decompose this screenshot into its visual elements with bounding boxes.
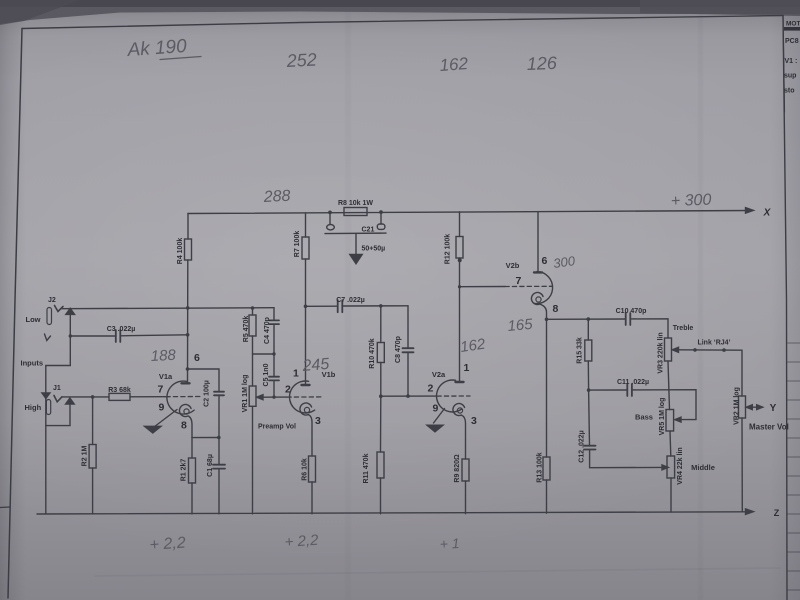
wire cathode node horizontal xyxy=(192,437,219,439)
svg-text:188: 188 xyxy=(150,347,177,365)
wire C4 bottom lead xyxy=(273,324,275,354)
wire C5 top lead xyxy=(273,354,275,376)
jack J1 switch arrow xyxy=(66,398,75,404)
svg-text:7: 7 xyxy=(516,275,522,287)
wire VR5 to VR4 track xyxy=(669,431,672,456)
wire R11 bottom lead xyxy=(380,478,382,514)
wire R10 top lead xyxy=(380,306,382,343)
wire C8 bottom lead xyxy=(407,353,409,397)
svg-text:R1 2k7: R1 2k7 xyxy=(181,459,188,482)
capacitor C21 stem xyxy=(355,233,357,254)
resistor R5 470k xyxy=(249,315,256,336)
wire C10 to VR3 corner xyxy=(630,319,668,338)
V2b anode bar xyxy=(534,271,542,273)
node X arrowhead xyxy=(746,208,754,214)
wire R9 bottom lead xyxy=(465,481,467,514)
node junction wire B / V1b anode xyxy=(304,305,308,309)
wire C2 branch top xyxy=(188,369,220,391)
svg-text:Master Vol: Master Vol xyxy=(749,423,789,432)
resistor R6 10k xyxy=(309,456,316,482)
wire VR3 to VR5 track xyxy=(668,361,670,410)
node junction R10 top xyxy=(379,304,383,308)
svg-text:R7 100k: R7 100k xyxy=(294,231,301,258)
svg-text:C11 .022µ: C11 .022µ xyxy=(617,379,649,386)
svg-text:1: 1 xyxy=(293,368,299,380)
svg-text:162: 162 xyxy=(459,336,487,356)
resistor R8 10k 1W xyxy=(344,208,367,216)
triode V2b envelope xyxy=(534,272,553,304)
svg-text:165: 165 xyxy=(507,316,534,335)
svg-text:2: 2 xyxy=(428,383,434,395)
wire R8 right stem xyxy=(380,212,382,224)
node junction R2 top xyxy=(91,395,95,399)
V1b cathode curl inner xyxy=(304,407,309,412)
svg-text:sup: sup xyxy=(784,73,796,80)
jack J1 switch contact arrow (down) xyxy=(42,393,50,399)
paper crease faint line xyxy=(95,568,780,576)
svg-text:V2b: V2b xyxy=(506,261,520,270)
wire V1b grid dashes xyxy=(287,396,321,398)
node junction C5 bottom xyxy=(272,395,275,398)
node junction V2b grid branch xyxy=(458,285,461,288)
wire V2b grid feed xyxy=(460,286,506,288)
VR4 wiper arrowhead xyxy=(662,465,668,470)
svg-text:R10 470k: R10 470k xyxy=(369,338,376,368)
VR2 wiper right arrowhead xyxy=(757,405,763,410)
wire C12 column xyxy=(588,390,591,445)
wire R4 top lead from bus xyxy=(187,214,189,240)
V2b cathode curl inner xyxy=(536,297,541,302)
wire R13 column xyxy=(546,319,548,457)
wire R13 bottom lead xyxy=(546,480,548,513)
title block left border (top right) xyxy=(783,16,785,113)
wire J2 contact drop xyxy=(46,314,71,392)
wire C1 top lead xyxy=(218,438,220,465)
capacitor C11 .022u plates xyxy=(627,384,632,396)
wire V1b cathode lead xyxy=(309,415,313,456)
wire R7 top lead from bus xyxy=(305,213,307,237)
wire V2b grid dashes xyxy=(505,285,552,287)
svg-text:Z: Z xyxy=(774,508,780,518)
wire VR2 bottom lead xyxy=(741,418,743,512)
svg-text:Inputs: Inputs xyxy=(21,359,44,368)
V2a anode bar xyxy=(456,381,464,383)
wire VR4 bottom lead xyxy=(670,478,672,512)
svg-text:288: 288 xyxy=(262,188,291,206)
resistor R15 33k xyxy=(585,340,592,361)
jack J2 tip hook xyxy=(55,306,64,312)
wire J1 contact drop xyxy=(46,404,70,426)
frame top border xyxy=(22,16,783,29)
wire V2b cathode lead xyxy=(540,304,547,319)
svg-text:V1 :: V1 : xyxy=(785,58,798,65)
svg-text:Low: Low xyxy=(26,315,41,324)
photo top dark band xyxy=(0,0,800,25)
capacitor C3 .022u plates xyxy=(116,330,121,342)
node junction R8 right tap xyxy=(379,210,383,214)
left margin tick xyxy=(0,506,10,509)
svg-text:R5 470k: R5 470k xyxy=(243,316,250,343)
V1b cathode curl xyxy=(300,403,312,415)
wire B C7 to C8 corner xyxy=(342,305,408,307)
pad connector left of C21 xyxy=(327,225,335,230)
wire V2b anode from bus xyxy=(537,212,539,272)
wire cathode node to C10 xyxy=(547,318,626,320)
VR1 wiper arrowhead xyxy=(257,395,263,400)
wire R1 bottom lead xyxy=(191,483,193,514)
wire C12 bottom corner to VR4 wiper xyxy=(590,450,663,468)
svg-text:245: 245 xyxy=(301,356,330,375)
svg-text:R12 100k: R12 100k xyxy=(445,234,452,264)
jack J1 sleeve xyxy=(46,400,50,415)
svg-text:VR4 22k lin: VR4 22k lin xyxy=(677,447,684,484)
svg-text:High: High xyxy=(25,403,42,412)
svg-text:252: 252 xyxy=(285,49,317,71)
svg-text:Preamp Vol: Preamp Vol xyxy=(258,424,296,431)
svg-text:J2: J2 xyxy=(48,297,56,304)
svg-text:162: 162 xyxy=(439,54,469,75)
frame right border xyxy=(783,16,787,600)
node junction C8 bottom xyxy=(406,394,410,398)
resistor R7 100k xyxy=(302,237,309,259)
triode V2a envelope xyxy=(437,380,462,412)
capacitor C12 .022u plates xyxy=(584,446,596,450)
node Z arrowhead xyxy=(746,509,754,515)
svg-text:3: 3 xyxy=(471,415,477,427)
VR2 wiper double arrow line xyxy=(748,406,761,408)
title block header bar xyxy=(784,27,800,31)
resistor R11 470k xyxy=(377,452,384,478)
svg-text:9: 9 xyxy=(159,402,165,414)
svg-text:R13 100k: R13 100k xyxy=(537,452,544,482)
svg-text:C2 100µ: C2 100µ xyxy=(204,380,211,407)
node junction R10/R11 xyxy=(379,394,383,398)
V2b cathode curl xyxy=(531,293,543,305)
wire C1 bottom lead xyxy=(218,469,220,514)
resistor R13 100k xyxy=(543,457,550,480)
VR5 wiper arrowhead xyxy=(675,417,681,422)
svg-text:V1a: V1a xyxy=(159,372,173,381)
wire high input to R3 xyxy=(62,396,109,398)
svg-text:VR2 1M log: VR2 1M log xyxy=(734,387,741,425)
svg-text:R11 470k: R11 470k xyxy=(363,453,370,483)
svg-text:R6 10k: R6 10k xyxy=(302,458,309,481)
svg-text:6: 6 xyxy=(194,352,200,364)
svg-text:R2 1M: R2 1M xyxy=(82,446,89,467)
svg-text:J1: J1 xyxy=(53,385,61,392)
V1a pin9 heater lead xyxy=(154,410,177,428)
wire low-input mixing node xyxy=(62,308,274,309)
wire R6 bottom lead xyxy=(311,482,313,514)
svg-text:sto: sto xyxy=(784,88,795,95)
node junction R15 top xyxy=(587,317,591,321)
jack J2 switch arrow xyxy=(66,308,75,314)
svg-text:V2a: V2a xyxy=(432,370,446,379)
svg-text:R4 100k: R4 100k xyxy=(177,238,184,265)
svg-text:MOT: MOT xyxy=(786,21,800,28)
svg-text:+ 2,2: + 2,2 xyxy=(149,535,186,554)
svg-text:C7 .022µ: C7 .022µ xyxy=(336,297,365,304)
svg-text:+ 300: + 300 xyxy=(671,192,712,210)
resistor R3 68k xyxy=(109,393,130,400)
wire R3 to V1a grid xyxy=(130,396,166,398)
wire V2a grid node xyxy=(381,395,437,397)
wire Z ground bus xyxy=(37,512,745,514)
node link terminal right xyxy=(722,348,726,352)
potentiometer VR2 1M log xyxy=(739,396,746,418)
V1a anode bar xyxy=(182,382,190,384)
svg-text:R8 10k 1W: R8 10k 1W xyxy=(338,200,373,207)
wire R2 column xyxy=(92,397,94,514)
wire V2a grid dashes xyxy=(437,395,470,397)
svg-text:Ak 190: Ak 190 xyxy=(126,36,188,61)
potentiometer VR1 1M log xyxy=(249,386,256,406)
svg-text:+ 1: + 1 xyxy=(439,535,460,552)
V2a cathode curl inner xyxy=(457,408,462,413)
svg-text:9: 9 xyxy=(433,403,439,415)
wire R5/C4 bottom tie xyxy=(253,353,275,355)
wire C2 bottom lead xyxy=(218,396,220,438)
node junction C11 left xyxy=(587,388,591,392)
potentiometer VR4 22k lin xyxy=(667,456,675,478)
V1a cathode curl inner xyxy=(184,409,189,414)
wire R8 left stem xyxy=(329,212,331,224)
svg-text:X: X xyxy=(763,208,772,219)
wire V1a grid dashes xyxy=(166,396,200,398)
ground V2a pin9 xyxy=(427,425,443,432)
potentiometer VR3 220k lin xyxy=(665,338,672,361)
wire R15 bottom lead xyxy=(587,361,589,390)
svg-text:C21: C21 xyxy=(362,227,375,234)
svg-text:C10 470p: C10 470p xyxy=(616,308,647,315)
svg-text:8: 8 xyxy=(553,303,559,315)
capacitor C4 470p plates xyxy=(269,320,279,324)
svg-text:C3 .022µ: C3 .022µ xyxy=(107,326,136,333)
node junction C3 left xyxy=(69,334,72,337)
wire V1a cathode lead xyxy=(189,416,193,438)
svg-text:Bass: Bass xyxy=(635,413,653,422)
svg-text:R15 33k: R15 33k xyxy=(577,337,584,364)
wire R12 top lead from bus xyxy=(459,212,461,237)
resistor R4 100k xyxy=(185,239,192,260)
wire VR1 wiper to V1b grid xyxy=(262,396,287,398)
jack J2 sleeve hook xyxy=(45,334,51,341)
wire V2a anode column xyxy=(459,258,461,382)
jack J1 tip hook xyxy=(54,396,62,402)
annotation 190 underline xyxy=(160,57,201,60)
svg-text:126: 126 xyxy=(526,53,558,74)
node junction C1 top xyxy=(217,436,221,440)
svg-text:2: 2 xyxy=(285,384,291,396)
node junction C2 branch xyxy=(186,367,190,371)
frame left border xyxy=(8,29,22,599)
node junction C3/anode xyxy=(186,333,190,337)
wire C3 right lead xyxy=(120,335,187,336)
jack J2 sleeve xyxy=(47,308,52,325)
wire R11 top lead xyxy=(380,396,382,452)
potentiometer VR5 1M log xyxy=(666,410,674,432)
wire R5 top lead xyxy=(252,308,254,315)
wire VR3 wiper link to VR2 xyxy=(678,350,743,396)
capacitor C2 100u plates xyxy=(214,392,224,396)
svg-text:VR5 1M log: VR5 1M log xyxy=(659,398,666,436)
ground C21 arrow xyxy=(350,255,362,264)
wire R5 bottom lead xyxy=(252,336,254,386)
svg-text:PC8: PC8 xyxy=(785,38,799,45)
V1b anode bar xyxy=(302,384,310,386)
svg-text:R9 820Ω: R9 820Ω xyxy=(454,454,461,483)
svg-text:C8 470p: C8 470p xyxy=(395,336,402,363)
svg-text:300: 300 xyxy=(552,253,576,271)
capacitor C7 .022u plates xyxy=(338,300,343,312)
wire C11 left lead xyxy=(589,389,627,391)
pad connector right of C21 xyxy=(377,224,385,229)
svg-text:Treble: Treble xyxy=(673,325,694,332)
wire V2a cathode lead xyxy=(462,415,466,459)
node junction C5 top xyxy=(272,352,275,355)
svg-text:C4 470p: C4 470p xyxy=(264,317,271,344)
svg-text:Middle: Middle xyxy=(691,463,715,472)
wire +300 HT bus xyxy=(188,211,752,214)
ground V1a pin9 xyxy=(145,426,162,433)
svg-text:R3 68k: R3 68k xyxy=(108,387,131,394)
svg-text:VR1 1M log: VR1 1M log xyxy=(242,375,249,413)
wire C4 top corner xyxy=(273,308,275,320)
node junction R5 top xyxy=(251,306,255,310)
wire R1 top lead xyxy=(191,438,193,458)
resistor R1 2k7 xyxy=(189,458,196,483)
svg-text:C5 1n0: C5 1n0 xyxy=(263,363,270,386)
triode V1b envelope xyxy=(290,381,315,413)
capacitor C10 470p plates xyxy=(626,313,631,325)
wire C21 top plate line xyxy=(325,232,386,235)
node junction cathode/C10 xyxy=(545,318,549,322)
wire R15 top lead xyxy=(587,319,589,340)
capacitor C8 470p plates xyxy=(403,348,414,352)
svg-text:6: 6 xyxy=(542,255,548,267)
wire C3 left lead xyxy=(70,335,115,337)
node junction below R12 xyxy=(458,258,462,262)
right margin ruler ticks xyxy=(788,343,800,590)
svg-text:+ 2,2: + 2,2 xyxy=(284,532,320,551)
resistor R12 100k xyxy=(456,237,463,259)
svg-text:VR3 220k lin: VR3 220k lin xyxy=(658,332,665,373)
resistor R10 470k xyxy=(377,343,384,363)
wire R10 bottom lead xyxy=(380,363,382,397)
svg-text:Link ‘RJ4’: Link ‘RJ4’ xyxy=(697,340,730,347)
VR3 wiper arrowhead xyxy=(672,347,678,352)
node link terminal left xyxy=(693,348,697,352)
V2a cathode curl xyxy=(453,404,465,416)
node junction R8 left tap xyxy=(328,211,332,215)
svg-text:50+50µ: 50+50µ xyxy=(362,246,386,253)
wire input ground column xyxy=(45,398,47,514)
triode V1a envelope xyxy=(167,381,194,414)
V2a pin9 heater lead xyxy=(434,409,445,424)
resistor R9 820 xyxy=(462,459,469,481)
V1a cathode curl xyxy=(179,405,191,417)
svg-text:1: 1 xyxy=(464,362,470,374)
svg-text:7: 7 xyxy=(158,384,164,396)
capacitor C5 1n0 plates xyxy=(269,377,279,381)
VR2 wiper left arrowhead xyxy=(746,405,752,410)
svg-text:C1 68µ: C1 68µ xyxy=(207,454,214,477)
node junction R4/input wire xyxy=(186,306,190,310)
svg-text:Y: Y xyxy=(770,403,777,414)
wire C11 to VR5 wiper loop xyxy=(632,390,696,420)
wire C8 drop xyxy=(407,306,409,348)
wire VR1 bottom lead xyxy=(252,406,254,514)
wire V1a anode column xyxy=(187,260,189,383)
capacitor C1 68u plates xyxy=(213,465,225,469)
svg-text:3: 3 xyxy=(315,415,321,427)
svg-text:C12 .022µ: C12 .022µ xyxy=(579,430,586,462)
resistor R2 1M xyxy=(89,445,96,469)
wire B V1b anode to C7 xyxy=(306,305,338,307)
wire C5 bottom lead xyxy=(273,381,275,398)
svg-text:8: 8 xyxy=(181,420,187,432)
wire V1b anode column xyxy=(305,259,307,385)
